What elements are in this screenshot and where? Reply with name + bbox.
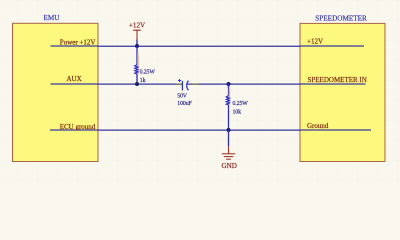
label R1 1k — [140, 78, 146, 84]
svg-text:0.25W: 0.25W — [233, 101, 249, 107]
junction +12V wire / R1 top — [135, 44, 139, 48]
pin ECU ground of EMU — [50, 123, 98, 131]
wire net AUX left segment (EMU to C1) — [98, 83, 182, 85]
svg-text:0.25W: 0.25W — [140, 70, 156, 76]
svg-text:Ground: Ground — [307, 122, 329, 130]
pin Ground of SPEEDOMETER — [300, 122, 371, 130]
svg-text:AUX: AUX — [67, 75, 82, 83]
resistor R2 10k — [226, 84, 229, 130]
wire net +12V from EMU to SPEEDOMETER — [98, 45, 301, 47]
label C1 100uF — [177, 101, 192, 107]
svg-text:Power +12V: Power +12V — [60, 39, 96, 47]
pin AUX of EMU — [51, 75, 99, 84]
svg-text:ECU ground: ECU ground — [60, 123, 96, 131]
svg-text:50V: 50V — [177, 93, 188, 99]
pin Power +12V of EMU — [51, 39, 99, 47]
label C1 50V — [177, 93, 188, 99]
pin SPEEDOMETER IN of SPEEDOMETER — [300, 76, 367, 84]
svg-text:SPEEDOMETER: SPEEDOMETER — [315, 14, 367, 22]
designator SPEEDOMETER — [315, 14, 367, 22]
resistor R1 1k — [135, 46, 138, 84]
wire net AUX right segment (C1 to SPEEDOMETER) — [188, 83, 301, 85]
capacitor C1 (polarized) — [178, 79, 188, 90]
label R2 0.25W — [233, 101, 249, 107]
designator EMU — [44, 14, 61, 22]
pin +12V of SPEEDOMETER — [300, 38, 364, 46]
svg-text:GND: GND — [222, 162, 237, 170]
ground symbol GND — [222, 146, 235, 159]
junction AUX wire / R1 bottom — [135, 82, 139, 86]
power symbol +12V — [129, 22, 146, 40]
wire stub from ground wire to GND symbol — [228, 130, 230, 146]
svg-text:SPEEDOMETER IN: SPEEDOMETER IN — [308, 76, 367, 84]
wire net ECU ground from EMU to SPEEDOMETER — [98, 129, 301, 131]
svg-text:10k: 10k — [233, 109, 242, 115]
svg-text:100uF: 100uF — [177, 101, 192, 107]
label R2 10k — [233, 109, 242, 115]
junction AUX wire / R2 top — [227, 82, 231, 86]
svg-text:+12V: +12V — [129, 22, 146, 30]
label GND — [222, 162, 237, 170]
junction ground wire / R2 bottom — [227, 128, 231, 132]
svg-text:+12V: +12V — [307, 38, 323, 46]
component EMU body — [13, 23, 99, 161]
component SPEEDOMETER body — [300, 23, 385, 161]
wire stub from +12V symbol to wire — [136, 40, 138, 47]
svg-text:1k: 1k — [140, 78, 146, 84]
label R1 0.25W — [140, 70, 156, 76]
svg-text:EMU: EMU — [44, 14, 61, 22]
